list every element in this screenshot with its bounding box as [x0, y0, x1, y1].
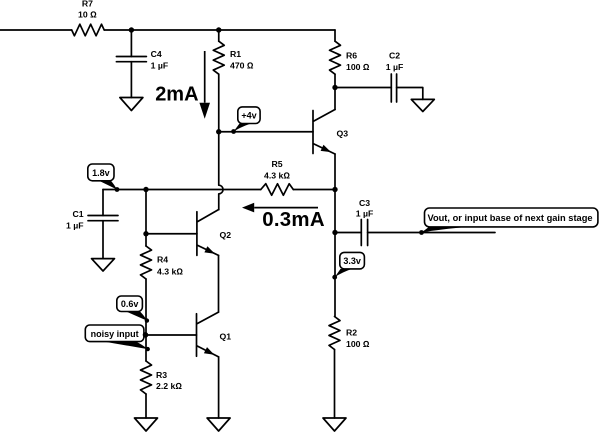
wire C1 lead [102, 190, 104, 259]
wire R4 branch [145, 190, 147, 362]
node G (Q2 base junction) [143, 231, 148, 236]
wire R1 lead [218, 30, 220, 132]
resistor R3 [141, 361, 152, 394]
node E (Q3 emitter / R5 junction) [332, 187, 337, 192]
node B (R1 top) [216, 27, 221, 32]
callout 0.6v [117, 296, 149, 323]
2mA arrowhead [199, 103, 210, 119]
svg-text:1 µF: 1 µF [356, 209, 374, 219]
svg-text:R5: R5 [271, 159, 282, 169]
wire R6 lead [334, 30, 336, 88]
transistor Q3 [313, 110, 335, 155]
ground below C4 [120, 98, 143, 111]
callout +4v [231, 107, 260, 134]
svg-text:Q1: Q1 [220, 332, 232, 342]
node F (R6 / C2 / Q3 collector) [332, 85, 337, 90]
wire rail 1.8v (y=189.5) [103, 189, 335, 191]
svg-text:R3: R3 [156, 370, 167, 380]
svg-text:1 µF: 1 µF [66, 221, 84, 231]
svg-text:100 Ω: 100 Ω [346, 62, 370, 72]
capacitor C1 [88, 216, 118, 221]
wire Q2 base [146, 233, 197, 235]
0.3mA arrowhead [242, 203, 254, 213]
node C (+4v node) [216, 129, 221, 134]
transistor Q1 [197, 312, 219, 357]
svg-text:C3: C3 [359, 198, 370, 208]
svg-text:R4: R4 [157, 255, 168, 265]
callout 3.3v [332, 252, 364, 279]
node D (R4 / rail junction) [143, 187, 148, 192]
resistor R6 [330, 41, 341, 74]
wire top rail [0, 29, 335, 31]
svg-text:C2: C2 [389, 51, 400, 61]
svg-text:0.6v: 0.6v [121, 299, 139, 309]
resistor R4 [141, 246, 152, 279]
node H (Q1 base junction) [143, 332, 148, 337]
wire Q3 emitter node to R2 [334, 190, 336, 317]
capacitor C2 [391, 74, 396, 102]
node A (C4 junction) [129, 27, 134, 32]
Q2 emitter arrowhead [204, 246, 215, 253]
svg-text:1 µF: 1 µF [386, 62, 404, 72]
wire C4 lead [130, 30, 132, 98]
0.3mA arrow line [254, 207, 318, 209]
svg-text:R7: R7 [82, 0, 93, 9]
capacitor C4 [116, 57, 146, 62]
ground below C2 [411, 99, 434, 111]
ground below R2 [323, 418, 346, 431]
svg-text:2mA: 2mA [155, 84, 198, 106]
capacitor C3 [361, 220, 367, 246]
resistor R5 [261, 184, 294, 196]
svg-text:3.3v: 3.3v [343, 256, 361, 266]
wire Q3 collector [334, 88, 336, 110]
svg-text:Vout, or input base of next ga: Vout, or input base of next gain stage [427, 213, 592, 223]
svg-text:10 Ω: 10 Ω [78, 10, 97, 20]
svg-text:R2: R2 [346, 328, 357, 338]
svg-text:C4: C4 [151, 49, 162, 59]
svg-text:4.3 kΩ: 4.3 kΩ [157, 267, 183, 277]
svg-text:2.2 kΩ: 2.2 kΩ [156, 381, 182, 391]
node I (C3 junction) [332, 230, 337, 235]
wire R3 to ground [145, 394, 147, 418]
2mA arrow line [204, 51, 206, 103]
svg-text:1 µF: 1 µF [151, 61, 169, 71]
svg-text:C1: C1 [72, 209, 83, 219]
ground below Q1 [207, 418, 230, 431]
wire R2 to ground [334, 350, 336, 419]
svg-text:100 Ω: 100 Ω [346, 339, 370, 349]
svg-text:4.3 kΩ: 4.3 kΩ [264, 170, 290, 180]
resistor R1 [213, 41, 224, 74]
ground below C1 [92, 259, 115, 271]
resistor R7 [72, 24, 104, 36]
svg-text:Q3: Q3 [337, 129, 349, 139]
callout noisy input [85, 325, 150, 351]
Q1 emitter arrowhead [204, 347, 214, 355]
svg-text:Q2: Q2 [220, 230, 232, 240]
callout Vout [419, 208, 598, 235]
wire C2 branch [335, 88, 423, 100]
wire Q2 emitter / Q1 collector [218, 255, 220, 312]
svg-text:R6: R6 [346, 51, 357, 61]
ground below R3 [135, 418, 158, 431]
wire mid rail (+4v node to Q3 base) [219, 131, 313, 133]
svg-text:1.8v: 1.8v [92, 168, 110, 178]
wire Q3 emitter down [334, 154, 336, 190]
svg-text:+4v: +4v [241, 111, 256, 121]
svg-text:0.3mA: 0.3mA [262, 209, 325, 231]
wire hop (vertical line over rail) [219, 132, 223, 210]
resistor R2 [329, 317, 340, 350]
wire Q2 collector to hop [218, 209, 220, 211]
transistor Q2 [197, 210, 219, 256]
wire Q1 emitter to ground [218, 357, 220, 418]
svg-text:470 Ω: 470 Ω [230, 61, 254, 71]
svg-text:R1: R1 [230, 49, 241, 59]
Q3 emitter arrowhead [321, 145, 331, 152]
svg-text:noisy input: noisy input [91, 329, 139, 339]
wire Q1 base [146, 334, 197, 336]
callout 1.8v [88, 164, 120, 192]
wire C3 branch [335, 232, 495, 234]
